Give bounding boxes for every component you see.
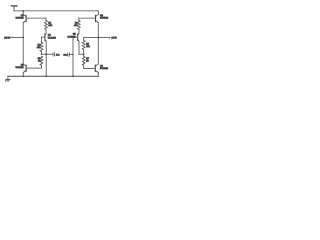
svg-text:BC558B: BC558B <box>100 18 109 20</box>
output terminal <box>109 37 111 39</box>
resistor R6 <box>82 56 85 65</box>
svg-text:BC548B: BC548B <box>100 68 109 70</box>
ground <box>5 76 10 81</box>
node <box>45 75 47 77</box>
transistor Q2 <box>41 33 46 41</box>
wire <box>40 51 42 54</box>
node <box>72 75 74 77</box>
transistor Q6 <box>95 64 98 73</box>
wire <box>45 29 47 33</box>
wire R1 corner <box>45 18 47 20</box>
wire <box>13 6 15 11</box>
svg-text:OUTPUT: OUTPUT <box>111 38 117 40</box>
svg-text:BC548B: BC548B <box>16 67 25 69</box>
wire output <box>98 37 109 39</box>
wire feedback <box>84 37 99 39</box>
svg-text:BC548B: BC548B <box>48 37 57 39</box>
transistor Q1 <box>23 14 46 22</box>
wire <box>97 11 99 15</box>
wire <box>83 65 85 68</box>
svg-text:47k: 47k <box>74 25 78 27</box>
wire mid horizontal <box>41 53 52 55</box>
node input junction <box>22 37 24 39</box>
transistor Q3 <box>73 33 79 41</box>
resistor R2 <box>40 42 43 51</box>
svg-text:INPUT: INPUT <box>4 38 11 40</box>
node <box>41 54 42 55</box>
wire <box>97 73 99 77</box>
wire <box>40 65 42 68</box>
node <box>22 75 24 77</box>
svg-text:BC548B: BC548B <box>68 37 77 39</box>
wire bottom rail <box>8 75 98 77</box>
resistor R1 <box>45 20 48 29</box>
wire tick <box>79 53 84 55</box>
wire base Q4 <box>79 17 95 19</box>
battery terminal +V <box>11 5 17 7</box>
wire R5 top corner <box>83 38 85 41</box>
capacitor C1 <box>53 53 55 56</box>
wire <box>22 11 24 15</box>
node output junction <box>97 37 99 39</box>
wire top rail <box>14 10 98 12</box>
wire base Q6 <box>84 67 95 69</box>
node <box>45 53 47 55</box>
wire base down <box>72 37 74 76</box>
wire <box>97 23 99 64</box>
wire cap stub <box>69 54 73 56</box>
resistor R3 <box>40 56 43 65</box>
svg-text:22k: 22k <box>86 46 90 48</box>
node <box>72 54 73 55</box>
wire R4 corner <box>78 18 80 20</box>
input terminal <box>11 37 13 39</box>
resistor R5 <box>82 40 85 49</box>
transistor Q5 <box>23 64 26 73</box>
svg-text:47k: 47k <box>48 25 52 27</box>
wire base Q5 <box>27 67 42 69</box>
svg-text:10u: 10u <box>64 55 68 57</box>
wire emitter down <box>45 41 47 76</box>
node A <box>22 10 24 12</box>
capacitor C2 <box>68 53 70 56</box>
svg-text:1k: 1k <box>86 60 88 62</box>
wire base down <box>40 37 42 42</box>
svg-text:BC548B: BC548B <box>16 18 25 20</box>
svg-text:10u: 10u <box>56 54 60 56</box>
transistor Q4 <box>96 14 99 22</box>
wire <box>83 50 85 57</box>
svg-text:1k: 1k <box>38 61 40 63</box>
node <box>83 53 85 55</box>
wire <box>22 23 24 64</box>
wire input <box>13 36 23 38</box>
resistor R4 <box>77 20 80 29</box>
wire <box>78 29 80 33</box>
wire <box>22 73 24 77</box>
wire emitter down <box>78 41 80 54</box>
